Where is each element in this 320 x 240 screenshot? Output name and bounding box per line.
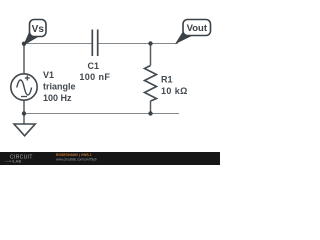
svg-text:triangle: triangle: [43, 82, 76, 92]
label C1 value: [79, 61, 110, 82]
node bottom-left junction dot: [22, 111, 26, 115]
svg-text:Vs: Vs: [32, 24, 45, 35]
label V1 value: [43, 70, 76, 103]
wire top rail left (node Vs to C1 left plate): [24, 43, 92, 45]
svg-text:100 nF: 100 nF: [79, 72, 110, 82]
svg-text:10 kΩ: 10 kΩ: [161, 86, 188, 96]
label R1 value: [161, 75, 188, 97]
wire V1 bottom: [23, 100, 25, 114]
voltage source V1: [11, 74, 37, 100]
svg-text:R1: R1: [161, 75, 173, 85]
wire V1 top (node Vs down to V1): [23, 44, 25, 75]
node Vs junction dot: [22, 42, 26, 46]
wire R1 bottom stub: [150, 101, 152, 114]
ground: [14, 114, 35, 136]
net label Vout: [176, 20, 211, 44]
wire R1 top stub: [150, 44, 152, 66]
node Vout junction dot: [148, 41, 152, 45]
node bottom-right junction dot: [148, 111, 152, 115]
footer bar: [0, 152, 220, 165]
net label Vs: [24, 20, 46, 45]
svg-text:V1: V1: [43, 70, 54, 80]
svg-text:C1: C1: [88, 61, 100, 71]
resistor R1: [145, 66, 157, 102]
svg-text:100 Hz: 100 Hz: [43, 93, 72, 103]
wire bottom rail: [24, 113, 179, 115]
footer logo CIRCUIT LAB: [5, 155, 33, 164]
svg-text:—»‹LAB: —»‹LAB: [5, 159, 21, 164]
capacitor C1: [92, 30, 97, 57]
wire top rail right (C1 right plate to Vout tail): [98, 43, 178, 45]
svg-text:www.circuitlab.com/c/w7f9yb: www.circuitlab.com/c/w7f9yb: [56, 157, 97, 161]
svg-text:Vout: Vout: [187, 23, 208, 34]
